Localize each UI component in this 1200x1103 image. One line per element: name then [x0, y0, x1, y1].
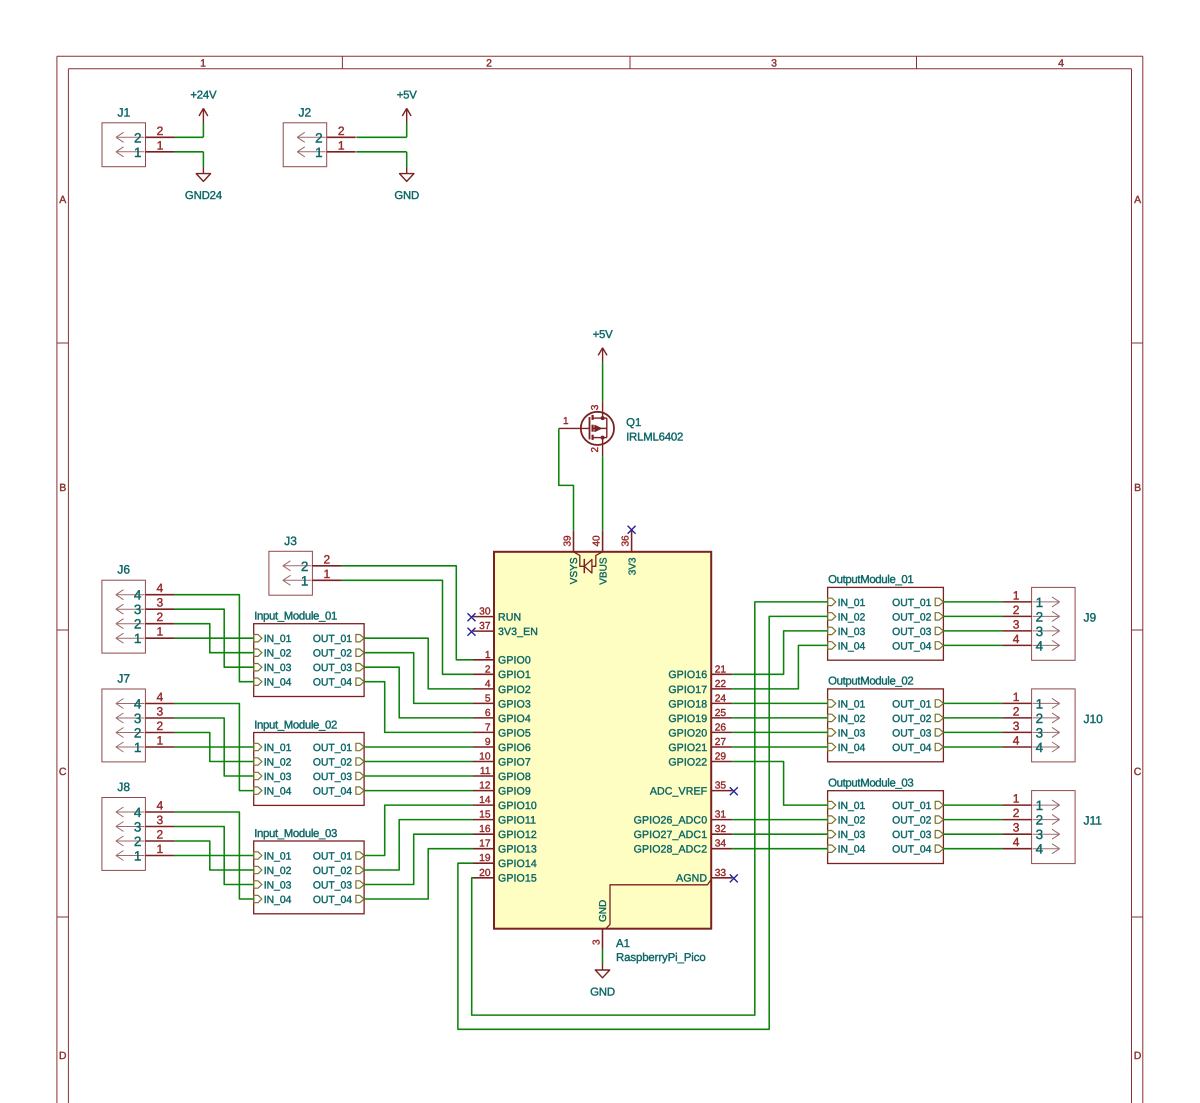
svg-text:J6: J6 [117, 563, 130, 577]
svg-text:IN_02: IN_02 [838, 612, 866, 623]
svg-text:RaspberryPi_Pico: RaspberryPi_Pico [616, 952, 706, 964]
svg-text:1: 1 [1036, 696, 1044, 711]
svg-text:AGND: AGND [676, 873, 707, 885]
svg-text:Q1: Q1 [626, 417, 641, 429]
svg-text:2: 2 [157, 610, 164, 624]
svg-text:GPIO26_ADC0: GPIO26_ADC0 [634, 815, 708, 827]
svg-text:34: 34 [715, 839, 727, 850]
svg-text:2: 2 [1036, 609, 1044, 624]
svg-text:IN_01: IN_01 [264, 852, 292, 863]
svg-text:2: 2 [590, 447, 601, 453]
svg-text:GPIO28_ADC2: GPIO28_ADC2 [634, 844, 708, 856]
svg-text:D: D [1134, 1050, 1142, 1062]
svg-text:IN_04: IN_04 [838, 845, 866, 856]
svg-text:Input_Module_01: Input_Module_01 [254, 611, 337, 623]
svg-text:39: 39 [563, 535, 574, 547]
svg-text:GPIO8: GPIO8 [498, 771, 531, 783]
svg-text:OUT_02: OUT_02 [313, 649, 352, 660]
svg-text:GPIO14: GPIO14 [498, 858, 537, 870]
svg-text:IN_04: IN_04 [264, 895, 292, 906]
svg-text:30: 30 [479, 607, 491, 618]
svg-text:GND: GND [590, 987, 615, 999]
svg-text:J1: J1 [117, 105, 130, 119]
svg-text:OUT_03: OUT_03 [892, 728, 931, 739]
svg-text:2: 2 [1036, 813, 1044, 828]
svg-text:Input_Module_03: Input_Module_03 [254, 828, 337, 840]
svg-text:IN_04: IN_04 [264, 678, 292, 689]
svg-text:15: 15 [479, 810, 491, 821]
svg-text:37: 37 [479, 621, 491, 632]
svg-text:6: 6 [485, 708, 491, 719]
svg-text:GPIO5: GPIO5 [498, 727, 531, 739]
svg-text:1: 1 [134, 145, 142, 160]
svg-text:RUN: RUN [498, 612, 521, 624]
svg-text:1: 1 [1013, 792, 1020, 806]
svg-text:4: 4 [134, 697, 142, 712]
svg-text:IN_02: IN_02 [264, 866, 292, 877]
svg-text:4: 4 [1058, 58, 1064, 70]
svg-text:GPIO21: GPIO21 [668, 742, 707, 754]
svg-text:2: 2 [134, 726, 142, 741]
svg-text:2: 2 [1013, 806, 1020, 820]
svg-text:14: 14 [479, 795, 491, 806]
svg-text:4: 4 [157, 690, 164, 704]
svg-text:OUT_04: OUT_04 [892, 743, 931, 754]
svg-text:4: 4 [157, 581, 164, 595]
svg-text:12: 12 [479, 781, 491, 792]
svg-text:1: 1 [134, 631, 142, 646]
svg-text:1: 1 [338, 138, 345, 152]
svg-text:IN_04: IN_04 [838, 743, 866, 754]
svg-text:4: 4 [1013, 632, 1020, 646]
svg-text:1: 1 [315, 145, 323, 160]
svg-text:OUT_04: OUT_04 [892, 845, 931, 856]
svg-text:+5V: +5V [397, 90, 418, 102]
svg-text:3: 3 [1013, 617, 1020, 631]
svg-text:A1: A1 [616, 938, 630, 950]
svg-text:GPIO17: GPIO17 [668, 684, 707, 696]
svg-text:J9: J9 [1084, 610, 1097, 624]
svg-text:10: 10 [479, 752, 491, 763]
svg-text:1: 1 [134, 740, 142, 755]
svg-text:VSYS: VSYS [569, 557, 580, 584]
svg-text:4: 4 [1013, 835, 1020, 849]
svg-text:IN_01: IN_01 [264, 743, 292, 754]
svg-text:4: 4 [157, 799, 164, 813]
svg-text:OUT_01: OUT_01 [313, 852, 352, 863]
svg-text:GPIO3: GPIO3 [498, 698, 531, 710]
svg-text:3: 3 [134, 820, 142, 835]
svg-text:OUT_01: OUT_01 [313, 634, 352, 645]
svg-text:J10: J10 [1084, 712, 1104, 726]
svg-text:4: 4 [1036, 638, 1044, 653]
svg-text:OUT_01: OUT_01 [892, 598, 931, 609]
svg-text:2: 2 [134, 834, 142, 849]
svg-text:IN_04: IN_04 [264, 787, 292, 798]
svg-text:OUT_04: OUT_04 [313, 678, 352, 689]
svg-text:2: 2 [1036, 711, 1044, 726]
svg-text:GPIO7: GPIO7 [498, 756, 531, 768]
svg-text:GPIO0: GPIO0 [498, 655, 531, 667]
svg-text:Input_Module_02: Input_Module_02 [254, 719, 337, 731]
svg-text:J11: J11 [1084, 814, 1103, 828]
svg-text:1: 1 [1036, 798, 1044, 813]
svg-text:GND: GND [394, 190, 419, 202]
svg-text:IN_03: IN_03 [838, 830, 866, 841]
svg-text:+24V: +24V [190, 90, 217, 102]
svg-text:OUT_04: OUT_04 [313, 787, 352, 798]
svg-text:3: 3 [1036, 624, 1044, 639]
svg-text:+5V: +5V [593, 329, 614, 341]
svg-text:2: 2 [485, 664, 491, 675]
svg-text:3: 3 [1036, 827, 1044, 842]
svg-text:IN_03: IN_03 [264, 881, 292, 892]
svg-text:29: 29 [715, 752, 727, 763]
svg-text:IRLML6402: IRLML6402 [626, 431, 683, 443]
svg-text:OUT_03: OUT_03 [313, 772, 352, 783]
svg-text:GPIO11: GPIO11 [498, 815, 536, 827]
svg-text:7: 7 [485, 722, 491, 733]
svg-text:IN_02: IN_02 [838, 714, 866, 725]
svg-text:OUT_03: OUT_03 [892, 830, 931, 841]
svg-text:2: 2 [301, 559, 309, 574]
svg-text:OUT_02: OUT_02 [892, 714, 931, 725]
svg-text:OUT_03: OUT_03 [892, 627, 931, 638]
svg-text:19: 19 [479, 853, 491, 864]
svg-text:4: 4 [1013, 734, 1020, 748]
svg-text:1: 1 [301, 573, 309, 588]
svg-text:J7: J7 [117, 672, 130, 686]
svg-text:3: 3 [1013, 821, 1020, 835]
svg-text:2: 2 [157, 828, 164, 842]
svg-text:2: 2 [324, 552, 331, 566]
svg-text:2: 2 [134, 130, 142, 145]
svg-text:IN_02: IN_02 [264, 758, 292, 769]
svg-text:IN_03: IN_03 [838, 627, 866, 638]
svg-text:1: 1 [134, 849, 142, 864]
svg-text:16: 16 [479, 824, 491, 835]
svg-text:3V3_EN: 3V3_EN [498, 626, 538, 638]
svg-text:OUT_02: OUT_02 [313, 866, 352, 877]
svg-text:26: 26 [715, 722, 727, 733]
svg-text:GPIO2: GPIO2 [498, 684, 531, 696]
svg-text:2: 2 [315, 130, 323, 145]
svg-text:4: 4 [485, 679, 491, 690]
svg-text:21: 21 [715, 664, 727, 675]
svg-text:OutputModule_01: OutputModule_01 [828, 574, 913, 586]
svg-text:22: 22 [715, 679, 727, 690]
svg-text:1: 1 [157, 842, 164, 856]
svg-text:IN_02: IN_02 [838, 816, 866, 827]
svg-text:36: 36 [621, 535, 632, 547]
svg-text:27: 27 [715, 737, 727, 748]
svg-text:3: 3 [771, 58, 777, 70]
svg-text:25: 25 [715, 708, 727, 719]
svg-text:40: 40 [592, 535, 603, 547]
svg-text:3: 3 [1013, 719, 1020, 733]
svg-text:IN_01: IN_01 [838, 598, 866, 609]
svg-text:GPIO10: GPIO10 [498, 800, 537, 812]
svg-text:3: 3 [1036, 725, 1044, 740]
svg-text:3: 3 [592, 939, 603, 945]
svg-text:OUT_01: OUT_01 [892, 699, 931, 710]
svg-text:GPIO19: GPIO19 [668, 713, 707, 725]
svg-text:IN_01: IN_01 [838, 801, 866, 812]
svg-text:2: 2 [1013, 704, 1020, 718]
svg-text:GPIO20: GPIO20 [668, 727, 707, 739]
svg-text:GPIO22: GPIO22 [668, 756, 707, 768]
svg-text:9: 9 [485, 737, 491, 748]
svg-text:B: B [1134, 482, 1141, 494]
svg-text:IN_04: IN_04 [838, 641, 866, 652]
svg-text:1: 1 [157, 138, 164, 152]
svg-text:4: 4 [134, 588, 142, 603]
svg-text:1: 1 [1013, 588, 1020, 602]
svg-text:2: 2 [157, 719, 164, 733]
svg-text:OutputModule_02: OutputModule_02 [828, 676, 913, 688]
svg-text:C: C [59, 766, 67, 778]
svg-text:33: 33 [715, 868, 727, 879]
svg-text:32: 32 [715, 824, 727, 835]
svg-text:J8: J8 [117, 780, 130, 794]
svg-text:3: 3 [134, 602, 142, 617]
svg-text:A: A [1134, 194, 1141, 206]
svg-text:GPIO12: GPIO12 [498, 829, 537, 841]
svg-text:35: 35 [715, 781, 727, 792]
svg-text:1: 1 [1036, 595, 1044, 610]
svg-text:IN_01: IN_01 [264, 634, 292, 645]
svg-text:1: 1 [485, 650, 491, 661]
svg-text:IN_02: IN_02 [264, 649, 292, 660]
svg-text:3: 3 [590, 404, 601, 410]
svg-text:3V3: 3V3 [627, 557, 638, 575]
svg-text:3: 3 [157, 813, 164, 827]
svg-text:4: 4 [1036, 842, 1044, 857]
svg-text:2: 2 [1013, 603, 1020, 617]
svg-text:IN_03: IN_03 [838, 728, 866, 739]
svg-text:3: 3 [134, 711, 142, 726]
svg-text:OUT_02: OUT_02 [892, 816, 931, 827]
svg-text:GPIO9: GPIO9 [498, 786, 531, 798]
svg-text:OUT_04: OUT_04 [892, 641, 931, 652]
svg-text:24: 24 [715, 693, 727, 704]
svg-text:2: 2 [486, 58, 492, 70]
svg-text:1: 1 [1013, 690, 1020, 704]
svg-text:GND24: GND24 [185, 190, 222, 202]
svg-text:GPIO4: GPIO4 [498, 713, 531, 725]
svg-text:B: B [59, 482, 66, 494]
svg-text:GPIO13: GPIO13 [498, 844, 537, 856]
svg-text:1: 1 [200, 58, 206, 70]
svg-text:J3: J3 [284, 534, 297, 548]
svg-text:GPIO27_ADC1: GPIO27_ADC1 [634, 829, 708, 841]
svg-text:OUT_04: OUT_04 [313, 895, 352, 906]
svg-text:OUT_02: OUT_02 [892, 612, 931, 623]
svg-text:A: A [59, 194, 66, 206]
svg-text:2: 2 [338, 124, 345, 138]
svg-text:C: C [1134, 766, 1142, 778]
svg-text:IN_03: IN_03 [264, 663, 292, 674]
svg-text:1: 1 [157, 625, 164, 639]
svg-text:GPIO15: GPIO15 [498, 873, 537, 885]
svg-text:OutputModule_03: OutputModule_03 [828, 778, 913, 790]
svg-text:OUT_03: OUT_03 [313, 881, 352, 892]
svg-text:IN_03: IN_03 [264, 772, 292, 783]
svg-text:2: 2 [157, 124, 164, 138]
svg-text:5: 5 [485, 693, 491, 704]
svg-text:3: 3 [157, 705, 164, 719]
svg-text:VBUS: VBUS [598, 557, 609, 585]
svg-text:11: 11 [480, 766, 491, 777]
svg-text:1: 1 [157, 734, 164, 748]
svg-text:2: 2 [134, 617, 142, 632]
svg-text:IN_01: IN_01 [838, 699, 866, 710]
svg-text:ADC_VREF: ADC_VREF [650, 786, 708, 798]
svg-text:1: 1 [563, 416, 569, 427]
svg-text:OUT_02: OUT_02 [313, 758, 352, 769]
svg-text:17: 17 [479, 839, 491, 850]
svg-text:GND: GND [598, 900, 609, 922]
svg-text:4: 4 [134, 805, 142, 820]
svg-text:GPIO16: GPIO16 [668, 669, 707, 681]
svg-text:GPIO1: GPIO1 [498, 669, 531, 681]
svg-text:D: D [59, 1050, 67, 1062]
svg-text:OUT_01: OUT_01 [892, 801, 931, 812]
svg-text:4: 4 [1036, 740, 1044, 755]
svg-text:31: 31 [715, 810, 727, 821]
svg-text:OUT_01: OUT_01 [313, 743, 352, 754]
svg-text:GPIO18: GPIO18 [668, 698, 707, 710]
svg-text:OUT_03: OUT_03 [313, 663, 352, 674]
svg-text:1: 1 [324, 567, 331, 581]
svg-text:J2: J2 [299, 105, 312, 119]
svg-text:3: 3 [157, 596, 164, 610]
svg-text:GPIO6: GPIO6 [498, 742, 531, 754]
svg-text:20: 20 [479, 868, 491, 879]
